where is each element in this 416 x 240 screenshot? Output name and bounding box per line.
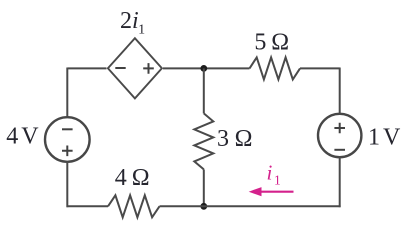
svg-text:4: 4 bbox=[115, 165, 127, 191]
svg-text:V: V bbox=[383, 125, 401, 151]
svg-text:Ω: Ω bbox=[132, 165, 150, 191]
wire middle vertical lower (3ohm to bottom node) bbox=[203, 169, 205, 206]
svg-text:Ω: Ω bbox=[235, 126, 253, 152]
svg-text:1: 1 bbox=[274, 173, 281, 188]
wire top-left horizontal (corner to diamond left vertex) bbox=[68, 67, 107, 69]
resistor R 3ohm vertical zigzag bbox=[194, 113, 213, 169]
minus sign inside diamond bbox=[115, 67, 125, 69]
node top junction bbox=[200, 65, 207, 72]
svg-text:1: 1 bbox=[368, 125, 380, 151]
wire middle vertical upper (top node to 3ohm) bbox=[203, 68, 205, 113]
svg-text:3: 3 bbox=[217, 126, 229, 152]
voltage source V1 4V (circle) bbox=[45, 117, 90, 162]
wire 4V source bottom to bottom-left corner bbox=[66, 162, 68, 207]
plus sign inside 1V source bbox=[334, 123, 345, 134]
svg-text:V: V bbox=[21, 124, 39, 150]
wire left vertical upper (corner down to 4V source top) bbox=[66, 68, 68, 118]
resistor R 4ohm zigzag bbox=[108, 195, 160, 217]
wire 5ohm to top-right corner bbox=[300, 67, 340, 69]
minus sign inside 4V source bbox=[62, 128, 73, 130]
svg-text:i: i bbox=[267, 161, 273, 185]
resistor R 5ohm zigzag bbox=[250, 57, 301, 79]
dependent source U1 2i1 (diamond) bbox=[108, 38, 162, 98]
node bottom junction bbox=[200, 203, 207, 210]
svg-text:Ω: Ω bbox=[271, 29, 289, 55]
plus sign inside diamond bbox=[143, 63, 154, 74]
wire bottom left segment (corner to 4ohm) bbox=[67, 205, 109, 207]
wire 1V source bottom to bottom-right corner bbox=[339, 157, 341, 207]
wire bottom right segment (4ohm to bottom-right corner) bbox=[160, 205, 341, 207]
plus sign inside 4V source bbox=[62, 146, 73, 157]
voltage source V2 1V (circle) bbox=[318, 114, 361, 157]
wire right vertical upper (corner down to 1V source top) bbox=[339, 68, 341, 114]
current arrow i1 (pink, pointing left) bbox=[261, 191, 294, 193]
minus sign inside 1V source bbox=[334, 149, 345, 151]
svg-text:5: 5 bbox=[254, 29, 266, 55]
svg-text:4: 4 bbox=[6, 124, 18, 150]
wire diamond right vertex to 5-ohm resistor start (through node) bbox=[163, 67, 250, 69]
